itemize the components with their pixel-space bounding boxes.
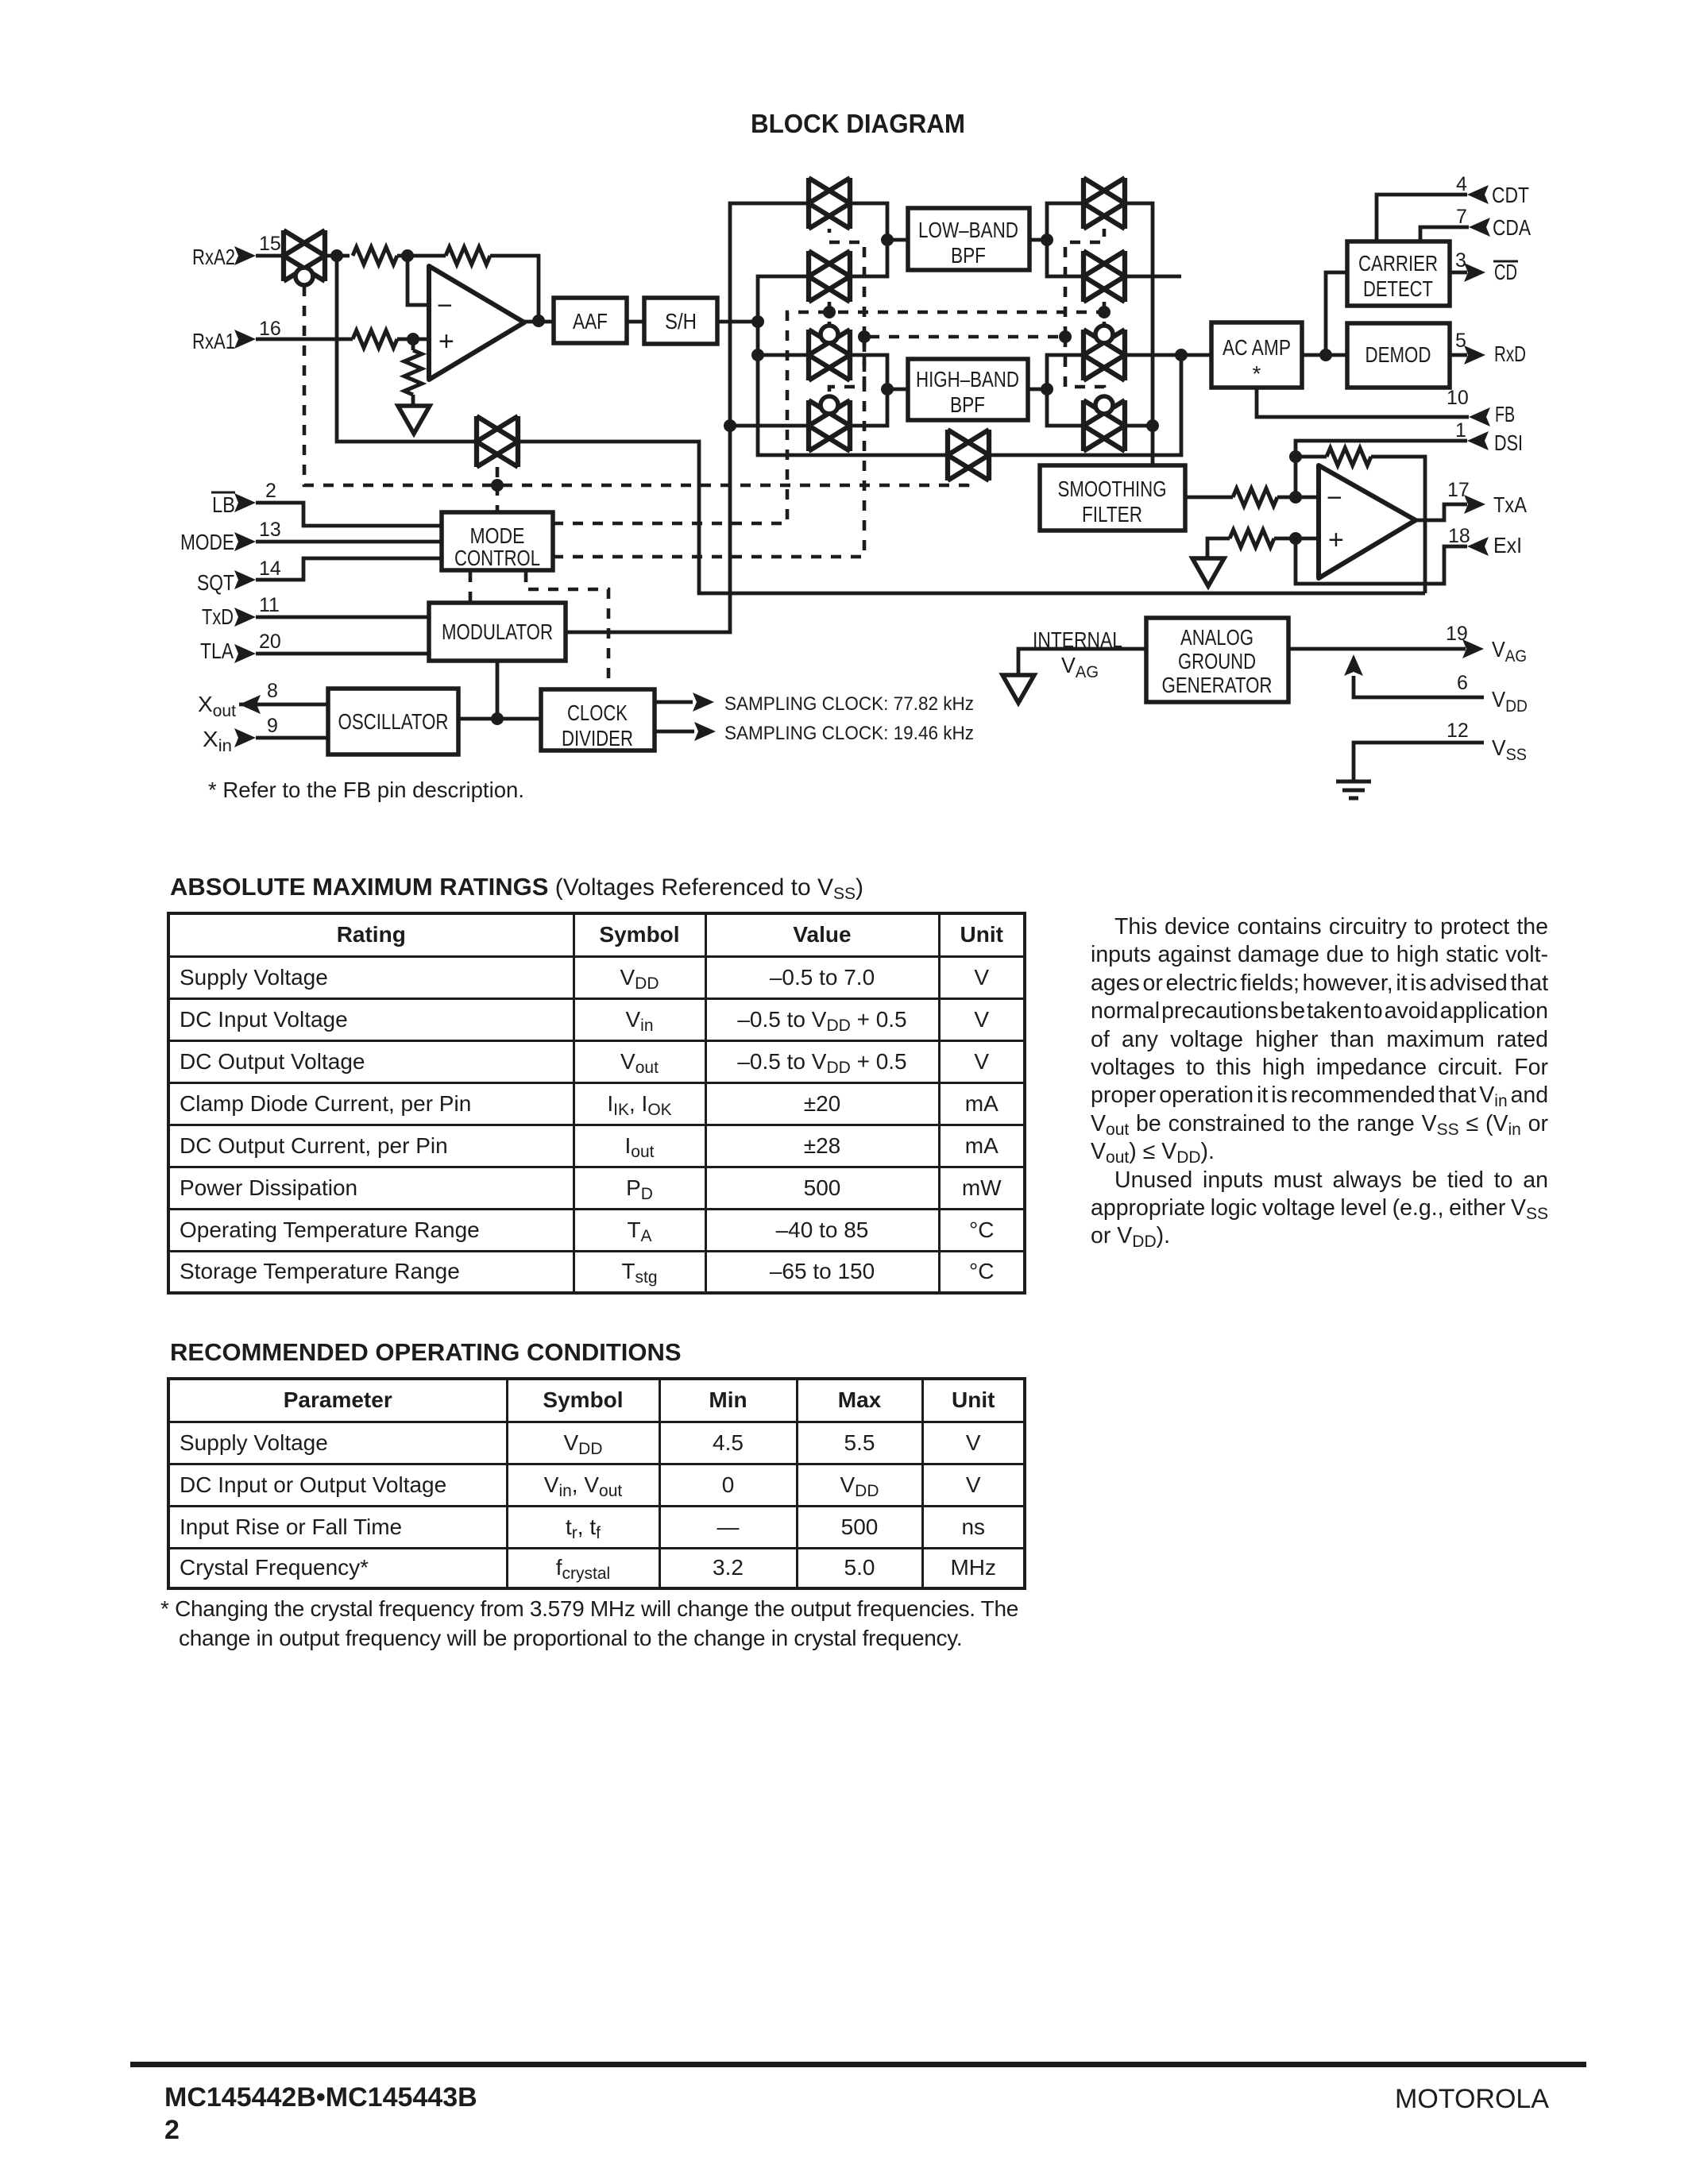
pin MODE arrow [234,532,256,551]
wire branch up to carrier detect [1326,272,1347,355]
pin RxD arrow [1464,345,1485,365]
wire control D3 mode control to riser [553,337,1065,557]
pin CD arrow [1464,263,1485,282]
svg-text:TLA: TLA [200,639,234,663]
overline for LB [211,492,235,494]
resistor plus op-amp2 [1230,530,1274,547]
switch L3 [809,326,850,380]
wire SQT jog [256,558,442,580]
node control D2 left [823,306,836,318]
wire node A riser to L2 [758,276,809,322]
resistor RxA1 input [353,330,397,348]
node DSI/feedback2 [1289,450,1302,463]
wire control D2 mode control to switch row [553,312,1104,523]
svg-text:DSI: DSI [1494,430,1523,455]
wire oscillator to clock divider [458,717,541,721]
node op-amp1 output [532,314,545,327]
box CLOCK DIVIDER [541,689,655,751]
node RxA1 plus input [407,333,419,345]
box AC AMP [1211,322,1302,388]
svg-text:CONTROL: CONTROL [454,546,540,570]
wire op-amp2 output to TxA [1416,504,1467,520]
svg-text:TxA: TxA [1493,492,1527,517]
wire TLA input [256,652,429,656]
wire R1 out down to smoothing filter [1125,203,1153,465]
node control D3 right [1059,330,1072,343]
wire R4 out [1125,424,1153,428]
box MODULATOR [429,603,566,661]
wire clock output 1 [655,700,693,704]
svg-text:BPF: BPF [951,243,986,268]
node AC AMP output [1319,349,1332,361]
wire modulator bottom stub [496,661,500,719]
box CARRIER DETECT [1347,241,1450,306]
resistor feedback op-amp2 [1327,448,1371,465]
node RxA2/SW5 [330,249,343,262]
node control D2 right [1098,306,1111,318]
wire TxD input [256,615,429,619]
box HIGH-BAND BPF [908,359,1028,420]
svg-text:INTERNAL: INTERNAL [1033,627,1122,652]
svg-text:AC AMP: AC AMP [1223,335,1291,360]
svg-text:CLOCK: CLOCK [567,700,628,725]
node control D3 left [858,330,871,343]
switch L4 [809,396,850,451]
wire R3 out to AC AMP [1125,353,1211,357]
resistor feedback op-amp1 [446,247,490,264]
wire ExI loop [1296,538,1467,584]
svg-text:BPF: BPF [950,392,985,417]
wire RxA1 resistor to op-amp [397,338,429,341]
wire SW1 to node [325,254,350,258]
wire L3 out to high-band input [850,355,908,389]
box S/H [644,298,717,344]
svg-text:AAF: AAF [573,309,608,334]
svg-text:LOW–BAND: LOW–BAND [918,218,1018,242]
svg-text:S/H: S/H [665,309,697,334]
svg-text:VDD: VDD [1492,687,1528,716]
svg-text:Xout: Xout [198,692,236,720]
wire plus input op-amp2 [1274,537,1319,541]
svg-text:RxA2: RxA2 [192,245,235,269]
svg-text:ExI: ExI [1493,533,1522,558]
wire node to R1 [1047,203,1083,240]
svg-text:CDT: CDT [1492,183,1529,207]
svg-text:VAG: VAG [1492,637,1527,666]
pin RxA2 arrow [234,246,256,265]
svg-text:VAG: VAG [1061,653,1099,681]
box DEMOD [1347,323,1450,388]
ground op-amp1 plus [398,406,430,434]
wire CDA [1420,227,1469,241]
pin VDD arrow up [1344,654,1363,676]
svg-text:19: 19 [1446,623,1468,645]
svg-text:SMOOTHING: SMOOTHING [1058,477,1167,501]
wire CD out [1450,271,1467,275]
svg-text:6: 6 [1457,672,1468,694]
wire low-band output node [1029,238,1047,242]
svg-text:ANALOG: ANALOG [1180,625,1253,650]
clock output arrow 1 [693,693,714,712]
pin CDA arrow [1469,218,1490,237]
wire Xout [239,703,328,707]
wire high-band output node [1028,388,1047,392]
wire LB jog to mode control [256,503,442,526]
wire Xin [256,736,328,740]
wire op-amp1 output to AAF [524,320,554,324]
resistor smoothing to minus [1233,488,1277,506]
svg-text:14: 14 [259,558,281,580]
svg-text:11: 11 [259,594,280,616]
switch R3 [1083,326,1125,380]
wire node B down to bypass row [758,355,948,455]
svg-text:16: 16 [259,318,281,340]
svg-text:MODULATOR: MODULATOR [442,619,553,644]
svg-text:17: 17 [1447,479,1470,501]
wire control D1 from SW1 [304,286,968,485]
switch R1 [1083,178,1125,229]
wire RxD out [1450,353,1467,357]
wire MODE input [256,540,442,544]
svg-text:Xin: Xin [203,727,232,755]
svg-text:DIVIDER: DIVIDER [562,726,633,751]
node control D1/SW5 [491,479,504,492]
pin Xout arrow [239,695,261,714]
wire control D4 to clock divider [526,572,608,689]
wire internal VAG to generator [1018,649,1146,675]
node R3/AC AMP [1175,349,1188,361]
wire feedback2 and loopback riser [1296,457,1425,593]
wire control D3 stub R1 [1065,229,1104,337]
svg-text:1: 1 [1455,419,1466,442]
box AAF [554,298,627,343]
op-amp U1 [429,266,524,380]
wire plus resistor to ground2 [1207,538,1230,558]
pin DSI arrow [1467,431,1489,450]
wire control D5 to modulator [469,572,473,603]
wire plus resistor to ground [411,339,415,406]
wire node to R2 [1047,240,1083,276]
svg-text:LB: LB [212,492,235,517]
box LOW-BAND BPF [908,208,1029,270]
svg-text:DEMOD: DEMOD [1365,342,1431,367]
node A S/H output [751,315,764,328]
switch SW1 (RxA2 input) [284,230,325,285]
svg-text:SQT: SQT [197,570,234,595]
wire control D3 stub L1 [829,229,864,337]
overline for CD [1493,260,1518,263]
switch SW5 (loopback) [477,416,518,467]
node op-amp2 plus [1289,532,1302,545]
svg-text:+: + [1328,525,1344,555]
switch L2 [809,251,850,302]
svg-text:GENERATOR: GENERATOR [1162,673,1273,697]
svg-text:CDA: CDA [1493,215,1531,240]
op-amp U2 [1319,465,1416,578]
wire L1 out to low-band input [850,203,908,240]
wire VSS [1354,743,1484,780]
wire node R1a to R1b [397,254,446,258]
svg-text:*: * [1253,361,1261,386]
pin TxA arrow [1464,495,1485,514]
svg-text:TxD: TxD [202,604,234,629]
svg-text:12: 12 [1447,720,1469,742]
svg-text:FB: FB [1495,402,1515,426]
wire node A down to node B and L3 [758,322,809,355]
ground internal VAG [1002,675,1034,703]
pin CDT arrow [1467,185,1489,204]
svg-text:2: 2 [265,480,276,502]
pin RxA1 arrow [234,330,256,349]
wire FB [1257,388,1469,417]
svg-text:VSS: VSS [1492,735,1527,764]
svg-text:4: 4 [1456,173,1467,195]
wire control D3 stub R4 [1065,337,1104,396]
resistor plus to ground [404,350,422,395]
wire L4 out riser [850,389,887,426]
svg-text:OSCILLATOR: OSCILLATOR [338,709,449,734]
node low-band input [881,233,894,246]
wire SW9 to right riser [990,355,1181,455]
svg-text:+: + [438,326,454,357]
node low-band output [1041,233,1053,246]
wire smoothing out to op-amp2 [1185,496,1319,500]
pin FB arrow [1469,407,1490,426]
wire AC AMP out to DEMOD [1302,353,1347,357]
pin SQT arrow [234,570,256,589]
wire SW5 to loopback corner [520,442,1425,593]
svg-text:SAMPLING CLOCK: 19.46 kHz: SAMPLING CLOCK: 19.46 kHz [724,723,974,744]
switch SW9 (bypass) [948,430,989,480]
switch R2 [1083,251,1125,302]
wire generator out to VAG pin [1288,647,1466,651]
wire control D2 stub R2/R3 [1103,302,1107,326]
svg-text:FILTER: FILTER [1082,502,1142,527]
svg-text:−: − [437,291,453,321]
switch R4 [1083,396,1125,451]
wire RxA2 input [256,254,284,258]
svg-text:RxA1: RxA1 [192,329,235,353]
box MODE CONTROL [442,512,553,570]
svg-text:* Refer to the FB pin descript: * Refer to the FB pin description. [208,778,524,802]
svg-text:DETECT: DETECT [1363,276,1433,301]
wire DSI [1296,441,1467,497]
box OSCILLATOR [328,689,458,754]
pin Xin arrow [234,728,256,747]
svg-text:20: 20 [259,631,281,653]
wire CDT [1377,195,1467,241]
node R4/smoothing [1146,419,1159,432]
node high-band input [881,383,894,396]
pin ExI arrow [1467,537,1489,556]
box SMOOTHING FILTER [1040,465,1185,531]
wire control D3 stub L4 [829,337,864,396]
wire control D1 SW5 stub [496,467,500,512]
wire AAF to S/H [627,320,644,324]
pin TLA arrow [234,644,256,663]
wire node to R4 [1047,389,1083,426]
wire VDD [1354,676,1484,697]
ground op-amp2 plus [1192,558,1224,586]
svg-text:9: 9 [267,715,278,737]
svg-text:RxD: RxD [1494,341,1526,366]
wire R2 out down right riser [1125,275,1181,279]
node B L3 row [751,349,764,361]
pin TxD arrow [234,608,256,627]
svg-text:HIGH–BAND: HIGH–BAND [916,367,1019,392]
wire modulator output riser to L1 [566,203,809,632]
svg-text:MODE: MODE [470,523,525,548]
box ANALOG GROUND GENERATOR [1146,618,1288,702]
ground VSS earth [1336,781,1371,798]
wire RxA1 input [256,338,353,341]
wire node to R3 [1047,355,1083,389]
svg-text:CARRIER: CARRIER [1358,251,1438,276]
wire inverting input riser [408,256,429,305]
pin VAG arrow [1462,639,1484,658]
wire feedback top to output [490,256,539,321]
svg-text:10: 10 [1447,387,1469,409]
svg-text:5: 5 [1455,330,1466,352]
wire clock output 2 [655,730,694,734]
wire L4 tap [730,424,809,428]
resistor RxA2 input [353,247,397,264]
svg-text:18: 18 [1448,525,1470,547]
wire S/H output [717,320,758,324]
node L4 tap [724,419,736,432]
node inverting feedback [401,249,414,262]
svg-text:13: 13 [259,519,281,541]
svg-text:BLOCK DIAGRAM: BLOCK DIAGRAM [751,109,965,138]
svg-text:3: 3 [1455,249,1466,272]
clock output arrow 2 [694,722,716,741]
node high-band output [1041,383,1053,396]
svg-text:7: 7 [1456,206,1467,228]
svg-text:15: 15 [259,233,281,255]
svg-text:SAMPLING CLOCK: 77.82 kHz: SAMPLING CLOCK: 77.82 kHz [724,693,974,715]
svg-text:CD: CD [1494,260,1517,284]
svg-text:MODE: MODE [180,530,234,554]
wire control D2 stub L2/L3 [828,302,832,326]
pin LB arrow [234,493,256,512]
svg-text:−: − [1327,483,1342,513]
switch L1 [809,178,850,229]
svg-text:8: 8 [267,680,278,702]
node op-amp2 minus [1289,491,1302,504]
wire L2 out riser [850,240,887,276]
node oscillator/modulator [491,712,504,725]
svg-text:GROUND: GROUND [1178,649,1256,673]
wire RxA2 branch down to SW5 [337,256,478,442]
